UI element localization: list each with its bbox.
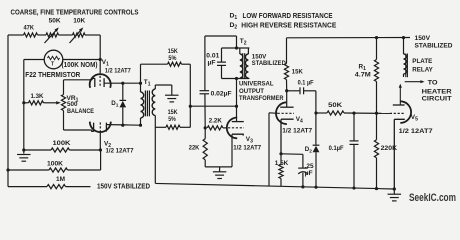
svg-text:5%: 5%: [168, 55, 176, 62]
svg-text:µF: µF: [305, 170, 313, 177]
svg-text:22K: 22K: [189, 144, 200, 151]
svg-text:10K: 10K: [73, 17, 85, 24]
svg-text:50K: 50K: [49, 17, 61, 24]
svg-text:TRANSFORMER: TRANSFORMER: [239, 95, 284, 102]
svg-text:LOW FORWARD RESISTANCE: LOW FORWARD RESISTANCE: [243, 13, 333, 20]
svg-text:150V: 150V: [415, 35, 431, 42]
svg-text:BALANCE: BALANCE: [67, 108, 94, 115]
svg-text:50K: 50K: [328, 102, 342, 109]
svg-text:PLATE: PLATE: [412, 58, 433, 65]
svg-text:0.01: 0.01: [206, 53, 219, 60]
svg-text:47K: 47K: [24, 24, 35, 31]
svg-text:0.02µF: 0.02µF: [211, 90, 232, 97]
svg-text:1/2 12AT7: 1/2 12AT7: [233, 145, 261, 152]
svg-text:µF: µF: [208, 60, 216, 67]
svg-text:RELAY: RELAY: [412, 66, 433, 73]
svg-text:STABILIZED: STABILIZED: [252, 60, 286, 67]
svg-text:4.7M: 4.7M: [355, 71, 372, 78]
svg-text:OUTPUT: OUTPUT: [239, 88, 265, 95]
svg-text:0.1µF: 0.1µF: [329, 145, 344, 152]
svg-text:1M: 1M: [56, 176, 65, 183]
svg-text:0.1 µF: 0.1 µF: [298, 80, 314, 87]
svg-text:UNIVERSAL: UNIVERSAL: [239, 81, 274, 88]
svg-text:100K: 100K: [53, 140, 71, 147]
svg-text:F22 THERMISTOR: F22 THERMISTOR: [25, 72, 80, 79]
svg-text:TO: TO: [428, 80, 438, 87]
svg-text:100K: 100K: [47, 161, 63, 168]
svg-text:1/2 12AT7: 1/2 12AT7: [282, 128, 312, 135]
svg-text:1/2 12AT7: 1/2 12AT7: [399, 128, 433, 135]
svg-text:150V STABILIZED: 150V STABILIZED: [97, 184, 150, 191]
svg-text:STABILIZED: STABILIZED: [415, 42, 453, 49]
svg-text:COARSE, FINE TEMPERATURE CONTR: COARSE, FINE TEMPERATURE CONTROLS: [11, 9, 139, 16]
svg-text:CIRCUIT: CIRCUIT: [422, 96, 452, 103]
svg-text:.25: .25: [305, 163, 314, 170]
svg-text:(100K NOM): (100K NOM): [62, 62, 98, 69]
svg-text:5%: 5%: [168, 116, 176, 123]
svg-text:1/2 12AT7: 1/2 12AT7: [106, 148, 134, 155]
svg-text:15K: 15K: [168, 109, 178, 116]
svg-text:1.3K: 1.3K: [31, 93, 44, 100]
svg-text:2.2K: 2.2K: [209, 117, 222, 124]
svg-text:1.5K: 1.5K: [275, 160, 289, 167]
svg-text:HIGH REVERSE RESISTANCE: HIGH REVERSE RESISTANCE: [241, 22, 336, 29]
svg-text:1/2 12AT7: 1/2 12AT7: [105, 67, 131, 74]
svg-text:HEATER: HEATER: [422, 89, 452, 96]
svg-text:SeekIC.com: SeekIC.com: [409, 192, 456, 204]
svg-text:15K: 15K: [292, 68, 303, 75]
